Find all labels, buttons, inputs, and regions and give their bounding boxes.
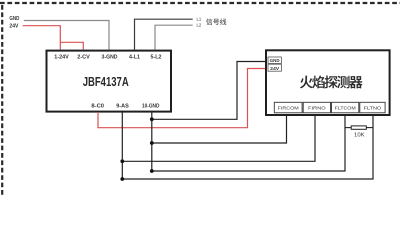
label signal-line (信号线) bbox=[206, 18, 226, 25]
wire 9-AS to FLTNO bbox=[122, 115, 373, 179]
wire pin 4-L1 to L1 bbox=[135, 19, 193, 49]
svg-text:FIRCOM: FIRCOM bbox=[278, 105, 299, 111]
wire resistor left lead to FLTCOM drop bbox=[345, 127, 351, 129]
svg-text:10K: 10K bbox=[354, 133, 365, 139]
terminal FLTCOM bbox=[332, 102, 359, 113]
module flame detector (火焰探测器) bbox=[266, 50, 390, 115]
svg-text:L2: L2 bbox=[197, 23, 202, 28]
terminal FLTNO bbox=[360, 102, 385, 113]
wire 24V to pin 1-24V bbox=[23, 26, 61, 50]
dashed border (left edge) bbox=[1, 5, 3, 196]
svg-text:FLTNO: FLTNO bbox=[364, 105, 382, 111]
svg-text:10-GND: 10-GND bbox=[142, 104, 160, 110]
svg-text:5-L2: 5-L2 bbox=[151, 54, 162, 60]
junction on 9-AS bus (FLTNO feed) bbox=[120, 177, 124, 181]
svg-text:4-L1: 4-L1 bbox=[129, 54, 140, 60]
svg-text:1-24V: 1-24V bbox=[54, 54, 69, 60]
module name 火焰探测器 bbox=[300, 75, 363, 88]
wire 9-AS to FIRNO bbox=[122, 115, 315, 161]
junction on 10-GND bus (GND feed) bbox=[150, 117, 154, 121]
svg-text:JBF4137A: JBF4137A bbox=[83, 74, 129, 89]
svg-text:GND: GND bbox=[9, 16, 19, 22]
wire 10-GND to GND terminal of detector bbox=[152, 62, 268, 120]
wire pin 9-AS vertical bus bbox=[121, 112, 123, 179]
svg-text:2-CV: 2-CV bbox=[77, 54, 90, 60]
terminal FIRCOM bbox=[274, 102, 302, 113]
svg-text:L1: L1 bbox=[197, 16, 202, 21]
dashed border (top edge) bbox=[0, 2, 400, 4]
terminal 24V of detector bbox=[268, 64, 281, 71]
wire pin 5-L2 to L2 bbox=[155, 25, 193, 49]
wire 24V branch to pin 2-CV bbox=[60, 42, 83, 49]
terminal FIRNO bbox=[303, 102, 330, 113]
wire resistor right lead to FLTNO drop bbox=[366, 127, 373, 129]
junction on 9-AS bus (FIRNO feed) bbox=[120, 159, 124, 163]
svg-text:FLTCOM: FLTCOM bbox=[335, 105, 356, 111]
svg-text:3-GND: 3-GND bbox=[102, 54, 118, 60]
wire 10-GND to FIRCOM bbox=[152, 115, 287, 143]
resistor R1 body bbox=[351, 126, 366, 129]
module U1 JBF4137A bbox=[47, 51, 172, 112]
junction on 10-GND bus (FLTCOM feed) bbox=[150, 169, 154, 173]
svg-text:9-AS: 9-AS bbox=[116, 104, 129, 110]
svg-text:FIRNO: FIRNO bbox=[308, 105, 326, 111]
svg-text:24V: 24V bbox=[270, 66, 279, 71]
wire pin 8-C0 to 24V terminal of detector bbox=[98, 69, 268, 128]
svg-text:24V: 24V bbox=[9, 23, 19, 29]
svg-text:GND: GND bbox=[270, 58, 280, 63]
svg-text:8-C0: 8-C0 bbox=[91, 104, 104, 110]
wire 10-GND to FLTCOM bbox=[152, 115, 345, 171]
wire GND to pin 3-GND bbox=[24, 21, 109, 50]
terminal GND of detector bbox=[268, 57, 281, 63]
wire pin 10-GND vertical bus bbox=[151, 112, 153, 171]
junction on 10-GND bus (FIRCOM feed) bbox=[150, 141, 154, 145]
